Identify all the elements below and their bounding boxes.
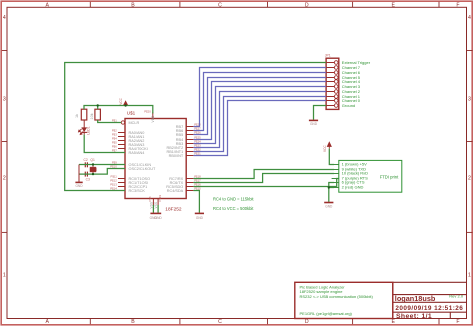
wire caps to ground: [78, 165, 80, 182]
connector JP1 pin Channel 3: [326, 84, 361, 89]
svg-text:B: B: [131, 2, 135, 8]
IC U$1 right pin RB4: [176, 136, 201, 142]
junction node crystal bottom: [92, 173, 94, 175]
svg-text:GND: GND: [196, 216, 204, 220]
connector JP1 pin Channel 7: [326, 65, 361, 70]
svg-text:2009/09/19 12:51:26: 2009/09/19 12:51:26: [395, 305, 463, 312]
svg-text:Ground: Ground: [342, 103, 355, 108]
ground G4: [324, 203, 333, 209]
connector JP1 body: [326, 58, 339, 109]
svg-text:P$20: P$20: [144, 110, 151, 114]
svg-text:U$1: U$1: [127, 111, 136, 116]
svg-text:P$19: P$19: [158, 195, 162, 202]
svg-text:2 (red) GND: 2 (red) GND: [342, 185, 364, 190]
svg-text:PE1GRL (pe1grl@amsat.org): PE1GRL (pe1grl@amsat.org): [300, 311, 353, 316]
svg-text:4: 4: [3, 15, 6, 21]
svg-text:Sheet: 1/1: Sheet: 1/1: [396, 313, 432, 320]
svg-text:Rev 2.0: Rev 2.0: [449, 293, 464, 298]
wire RB6 to JP1 Channel 6: [193, 73, 326, 131]
wire FTDI +5V to VCC: [329, 149, 334, 165]
wire LED1 to RA5/AN4: [84, 135, 125, 153]
frame column ticks bottom: [89, 319, 91, 325]
IC U$1 left pin RA0/AN0: [112, 129, 145, 135]
IC U$1 left pin RA3/AN3: [112, 141, 145, 147]
IC U$1 right pin RB6: [176, 127, 201, 133]
FTDI pin 9 (white) TXD: [332, 167, 366, 172]
wire R2 bottom to MCLR: [98, 120, 122, 123]
svg-text:logan18usb: logan18usb: [395, 294, 436, 303]
IC U$1 left pin RC2/CCP1: [110, 183, 147, 189]
IC U$1 left pin MCLR: [112, 119, 140, 125]
wire RB5 to JP1 Channel 5: [193, 78, 326, 135]
svg-text:GND: GND: [325, 204, 333, 208]
svg-text:2: 2: [3, 176, 6, 182]
connector JP1 pin Channel 2: [326, 89, 361, 94]
IC U$1 right pin RC4/SDA: [167, 187, 201, 193]
IC U$1 right pin RB1/INT1: [167, 148, 202, 154]
frame row ticks right: [467, 50, 473, 52]
connector JP1 pin Channel 0: [326, 98, 361, 103]
svg-text:3: 3: [3, 96, 6, 102]
svg-text:4: 4: [468, 15, 471, 21]
IC U$1 right pin RB3: [176, 140, 201, 146]
svg-text:VCC: VCC: [119, 97, 123, 104]
wire RB2 to JP1 Channel 2: [193, 92, 326, 148]
wire RC7/RX to FTDI TXD: [193, 170, 334, 179]
IC U$1 bottom pins VSS: [148, 195, 162, 209]
wire RC5/SDO to FTDI RTS: [193, 179, 339, 187]
junction node crystal top: [92, 163, 94, 165]
ground G1: [75, 182, 83, 188]
FTDI pin 7 (purple) RTS: [332, 176, 368, 181]
svg-text:RC4/SDA: RC4/SDA: [167, 189, 184, 193]
IC U$1 left pin RC3/SCK: [110, 187, 145, 193]
wire RB3 to JP1 Channel 3: [193, 87, 326, 144]
svg-text:VDD: VDD: [151, 115, 155, 123]
ground G5: [309, 120, 318, 126]
svg-text:C: C: [218, 2, 222, 8]
IC U$1 right pin RC6/TX: [170, 179, 201, 185]
IC U$1 right pin RB5: [176, 131, 201, 137]
svg-text:FTDI print: FTDI print: [380, 175, 399, 180]
LED LED1: [79, 120, 88, 135]
comments box outline: [295, 282, 393, 318]
svg-text:3: 3: [468, 96, 471, 102]
IC U$1 left pin RC0/T1OSO: [110, 175, 150, 181]
IC U$1 left pin RA5/AN4: [112, 149, 145, 155]
frame row ticks left: [2, 50, 7, 52]
IC U$1 left pin OSC2/CLKOUT: [110, 165, 156, 171]
IC U$1 left pin OSC1/CLKIN: [112, 161, 152, 167]
svg-text:GND: GND: [75, 184, 83, 188]
connector JP1 pin Channel 6: [326, 70, 361, 75]
svg-text:D: D: [305, 2, 309, 8]
wire RB7 to JP1 Channel 7: [193, 68, 326, 127]
svg-text:2: 2: [468, 176, 471, 182]
wire OSC2 net: [79, 169, 125, 175]
IC U$1 right pin RC7/RX: [169, 175, 201, 181]
wire RB4 to JP1 Channel 4: [193, 82, 326, 140]
svg-text:RS232 <-> USB communication (5: RS232 <-> USB communication (500kbit): [300, 294, 374, 299]
ground G2 under U$1 VSS: [150, 205, 163, 220]
IC U$1 right pin RC5/SDO: [166, 183, 201, 189]
IC U$1 right pin RB0/INT: [169, 152, 202, 158]
svg-text:RB5: RB5: [176, 133, 183, 137]
FTDI cable box: [339, 160, 402, 192]
svg-text:RA5/AN4: RA5/AN4: [129, 151, 145, 155]
svg-text:C2: C2: [84, 158, 88, 162]
connector JP1 pin Ground: [326, 103, 355, 108]
wire JP1 ground pin to ground: [314, 106, 327, 120]
crystal Q1: [90, 165, 96, 175]
svg-text:10k: 10k: [90, 113, 94, 119]
svg-text:RC4 to GND = 115kbit: RC4 to GND = 115kbit: [213, 197, 254, 202]
svg-text:VCC: VCC: [323, 145, 327, 152]
power symbol VCC near U$1: [119, 97, 128, 106]
svg-text:P$8: P$8: [148, 196, 152, 201]
svg-text:A: A: [45, 319, 49, 325]
connector JP1 pin Channel 4: [326, 79, 361, 84]
svg-text:RC3/SCK: RC3/SCK: [129, 189, 146, 193]
wire RC4/SDA to ground: [193, 191, 199, 213]
resistor R2 10k body: [95, 109, 101, 120]
svg-text:1: 1: [3, 273, 6, 279]
wire RB1 to JP1 Channel 1: [193, 97, 326, 152]
wire FTDI CTS and GND to ground: [329, 183, 334, 202]
svg-text:GND: GND: [155, 216, 163, 220]
power symbol VCC near FTDI: [323, 141, 332, 152]
wire RB0 to JP1 Channel 0: [193, 101, 326, 156]
junction node CTS-GND: [328, 186, 330, 188]
svg-text:1k: 1k: [75, 114, 79, 118]
wire RC6/TX to FTDI RxD: [193, 174, 334, 183]
frame column ticks top: [89, 2, 91, 8]
svg-text:A: A: [45, 2, 49, 8]
svg-text:1: 1: [468, 273, 471, 279]
IC U$1 left pin RC1/T1OSI: [110, 179, 148, 185]
wire OSC1 net: [79, 164, 125, 166]
FTDI pin 1 (brown) +5V: [332, 162, 368, 167]
svg-text:F: F: [456, 319, 459, 325]
FTDI pin 6 (gray) CTS: [332, 180, 365, 185]
connector JP1 pin External Trigger: [326, 60, 371, 65]
svg-text:GND: GND: [310, 122, 318, 126]
IC U$1 right pin RB2/INT2: [167, 144, 202, 150]
wire VCC rail to resistors and VDD pin: [84, 106, 153, 114]
wire external trigger net: [65, 63, 326, 191]
title block outline: [393, 282, 467, 318]
svg-text:F: F: [456, 2, 459, 8]
capacitor C3: [85, 172, 87, 177]
junction node at R2 top: [97, 104, 99, 106]
connector JP1 pin Channel 1: [326, 94, 361, 99]
capacitor C2: [85, 162, 87, 167]
IC U$1 left pin RA4/T0CKI: [112, 145, 148, 151]
svg-text:MCLR: MCLR: [129, 121, 140, 125]
svg-text:E: E: [391, 2, 395, 8]
svg-text:JP1: JP1: [325, 54, 331, 58]
svg-text:LED1: LED1: [86, 126, 90, 135]
op IC U$1 PIC 18F252 body: [125, 119, 186, 199]
ground G3: [195, 213, 204, 220]
svg-text:Q1: Q1: [90, 158, 95, 162]
FTDI pin 2 (red) GND: [332, 185, 364, 190]
resistor R1 1k body: [81, 109, 87, 120]
IC U$1 top pin VDD: [144, 110, 155, 123]
svg-text:RB0/INT: RB0/INT: [169, 154, 184, 158]
svg-text:E: E: [391, 319, 395, 325]
svg-text:RC4 to VCC = 500kbit: RC4 to VCC = 500kbit: [213, 206, 254, 211]
svg-text:D: D: [305, 319, 309, 325]
svg-text:18F252: 18F252: [165, 206, 182, 212]
IC U$1 right pin RB7: [176, 123, 201, 129]
svg-text:C: C: [218, 319, 222, 325]
svg-text:OSC2/CLKOUT: OSC2/CLKOUT: [129, 167, 156, 171]
svg-text:B: B: [131, 319, 135, 325]
connector JP1 pin Channel 5: [326, 75, 361, 80]
IC U$1 left pin RA1/AN1: [112, 133, 145, 139]
FTDI pin 10 (black) RxD: [332, 171, 369, 176]
svg-text:C3: C3: [86, 178, 90, 182]
IC U$1 left pin RA2/AN2: [112, 137, 145, 143]
